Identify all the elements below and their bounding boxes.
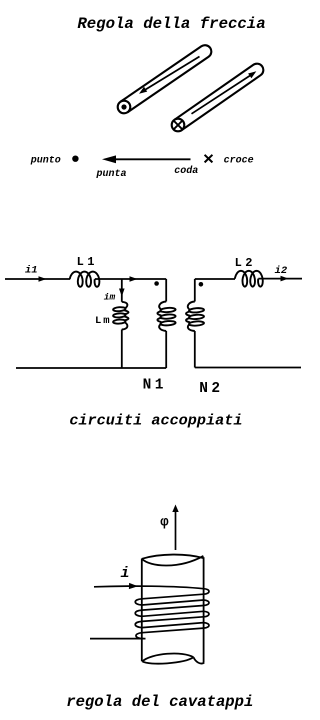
wire: N1 top lead bbox=[165, 279, 167, 302]
wire: left top, L1 to N1 corner bbox=[95, 278, 166, 280]
cylinder top rim bbox=[142, 555, 204, 566]
svg-text:regola del cavatappi: regola del cavatappi bbox=[66, 693, 253, 711]
svg-text:N2: N2 bbox=[199, 381, 223, 397]
legend cross X bbox=[205, 155, 213, 163]
inner arrow of cross tube bbox=[192, 71, 257, 114]
current arrow i1 bbox=[39, 276, 47, 282]
svg-text:punto: punto bbox=[30, 155, 61, 166]
solenoid winding (4 turns) bbox=[94, 586, 209, 638]
svg-text:L1: L1 bbox=[77, 255, 98, 269]
cylinder right edge bbox=[203, 557, 205, 662]
inductor L2 bbox=[235, 271, 263, 287]
polarity dot N2 bbox=[199, 282, 204, 287]
svg-text:coda: coda bbox=[174, 165, 198, 177]
inner arrow of dot tube bbox=[139, 57, 200, 94]
wire: left circuit bottom bbox=[16, 367, 166, 369]
legend dot bbox=[72, 156, 78, 162]
wire: N2 top lead bbox=[194, 279, 196, 302]
current arrow i on lead-in bbox=[129, 583, 138, 589]
wire: im branch down from node bbox=[121, 279, 123, 302]
wire: N1 bottom lead bbox=[165, 331, 167, 368]
winding N2 bbox=[189, 308, 204, 313]
polarity dot N1 bbox=[154, 281, 159, 286]
wire: right circuit bottom bbox=[195, 367, 301, 369]
wire: right top, corner to L2 bbox=[195, 278, 235, 280]
svg-text:L2: L2 bbox=[235, 256, 256, 270]
svg-text:Regola della freccia: Regola della freccia bbox=[77, 15, 265, 33]
arrow tube with cross (coda verso osservatore) bbox=[172, 64, 264, 132]
svg-text:i2: i2 bbox=[275, 265, 288, 277]
svg-text:Lm: Lm bbox=[95, 315, 112, 327]
current arrow i2 bbox=[281, 276, 289, 282]
svg-text:i: i bbox=[120, 565, 129, 582]
legend arrow punta-coda bbox=[102, 155, 191, 163]
svg-text:φ: φ bbox=[160, 515, 169, 531]
current lead out bbox=[90, 638, 146, 640]
svg-text:im: im bbox=[104, 292, 116, 303]
svg-text:croce: croce bbox=[224, 155, 254, 166]
svg-text:circuiti accoppiati: circuiti accoppiati bbox=[69, 412, 242, 430]
cylinder left edge bbox=[141, 559, 143, 662]
cylinder bottom rim bbox=[142, 653, 204, 663]
wire: N2 bottom lead bbox=[194, 331, 196, 368]
svg-text:punta: punta bbox=[95, 169, 126, 180]
arrow tube with dot (punta verso osservatore) bbox=[118, 45, 212, 113]
current arrow im bbox=[119, 289, 125, 297]
wire: right top after L2 bbox=[258, 278, 302, 280]
inductor L1 bbox=[70, 272, 100, 287]
winding N1 bbox=[160, 307, 175, 312]
wire: Lm bottom lead bbox=[121, 330, 123, 369]
wire: left top, segment before L1 bbox=[5, 278, 70, 280]
inductor Lm bbox=[113, 307, 126, 312]
svg-text:N1: N1 bbox=[143, 377, 167, 393]
flux arrow phi bbox=[172, 505, 178, 551]
current arrow on top wire after node bbox=[130, 276, 138, 282]
svg-text:i1: i1 bbox=[25, 265, 38, 277]
